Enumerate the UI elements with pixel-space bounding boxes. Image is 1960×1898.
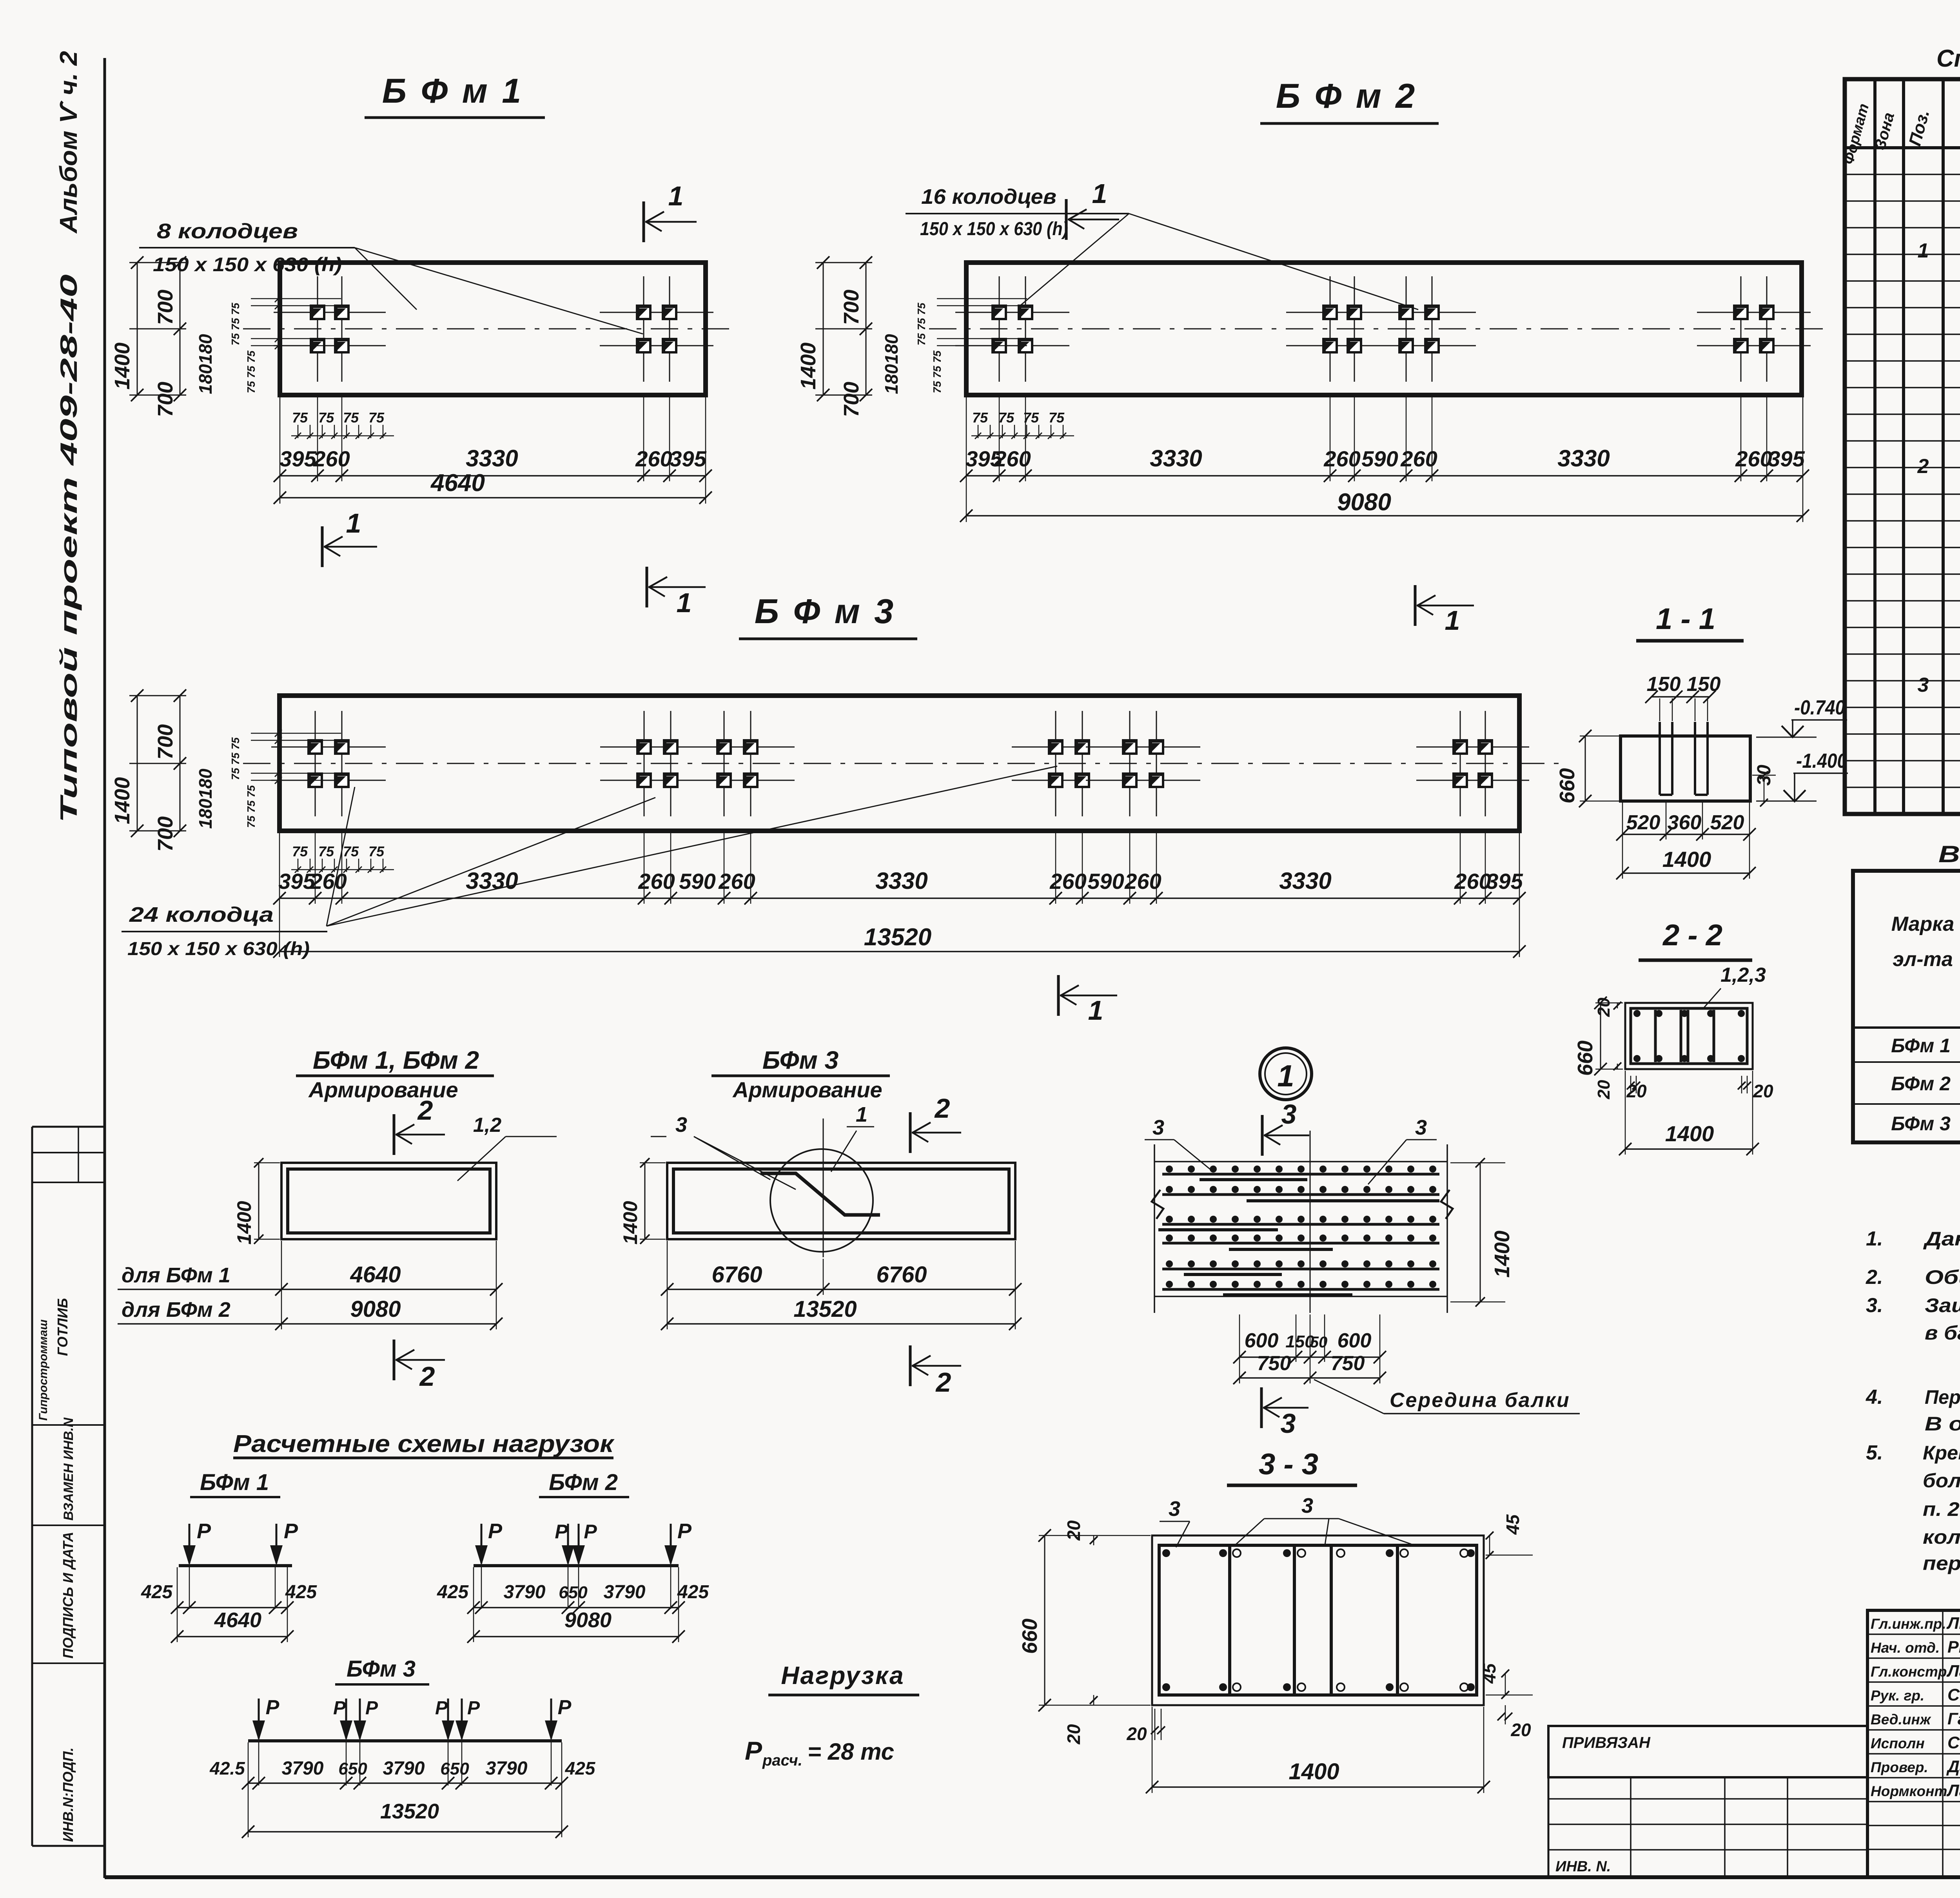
svg-text:600: 600 xyxy=(1338,1329,1372,1352)
svg-text:20: 20 xyxy=(1510,1720,1531,1740)
svg-text:Симакова: Симакова xyxy=(1947,1733,1960,1752)
break marks (detail 1) xyxy=(1152,1190,1163,1219)
svg-text:75 75 75: 75 75 75 xyxy=(229,303,241,345)
leader lines to wells БФм3 xyxy=(327,787,355,926)
svg-text:425: 425 xyxy=(437,1582,469,1603)
svg-text:Перед установкой пространстве: Перед установкой пространственных каркас… xyxy=(1925,1386,1960,1408)
svg-text:2 - 2: 2 - 2 xyxy=(1662,919,1722,952)
армирование БФм1-2 inner cage xyxy=(288,1169,490,1233)
bolt cluster БФм1 left xyxy=(317,276,318,382)
steel table grid xyxy=(1853,871,1960,1142)
svg-text:для БФм 2: для БФм 2 xyxy=(122,1298,230,1322)
svg-text:20: 20 xyxy=(1753,1081,1773,1101)
svg-text:1: 1 xyxy=(677,587,692,618)
svg-text:520: 520 xyxy=(1710,811,1744,834)
svg-text:395: 395 xyxy=(1768,446,1805,471)
svg-text:9080: 9080 xyxy=(1337,489,1391,516)
section 3-3 rebar dots xyxy=(1162,1549,1170,1557)
svg-text:P: P xyxy=(584,1521,597,1543)
svg-text:520: 520 xyxy=(1626,811,1661,834)
svg-text:Вед.инж: Вед.инж xyxy=(1871,1711,1931,1728)
svg-text:БФм 1, БФм 2: БФм 1, БФм 2 xyxy=(313,1046,479,1074)
dim stack left of БФм1 xyxy=(129,262,186,263)
svg-text:Гл.инж.пр.: Гл.инж.пр. xyxy=(1871,1616,1946,1632)
svg-text:Давыдова: Давыдова xyxy=(1946,1757,1960,1776)
svg-text:1400: 1400 xyxy=(1289,1759,1339,1784)
svg-text:4640: 4640 xyxy=(350,1262,401,1287)
scheme БФм1 dims xyxy=(177,1567,178,1609)
svg-text:1400: 1400 xyxy=(1665,1121,1714,1146)
svg-text:8 колодцев: 8 колодцев xyxy=(157,219,298,243)
svg-text:3330: 3330 xyxy=(466,868,518,894)
svg-text:20: 20 xyxy=(1063,1520,1084,1541)
svg-text:Гальперина: Гальперина xyxy=(1947,1709,1960,1728)
detail 1 centerline xyxy=(1310,1131,1311,1313)
svg-text:1400: 1400 xyxy=(1490,1231,1514,1278)
beam БФм2 outline xyxy=(966,263,1802,395)
svg-text:БФм 1: БФм 1 xyxy=(1891,1035,1951,1057)
extension lines БФм1 to dim row xyxy=(279,397,281,481)
svg-text:1: 1 xyxy=(1918,239,1929,262)
svg-text:9080: 9080 xyxy=(564,1608,612,1632)
svg-text:5.: 5. xyxy=(1866,1441,1883,1464)
svg-text:Типовой проект 409-28-40: Типовой проект 409-28-40 xyxy=(56,274,82,823)
beam БФм1 outline xyxy=(280,263,706,395)
svg-text:150 х 150 х 630 (h): 150 х 150 х 630 (h) xyxy=(920,219,1068,239)
svg-text:Выборка стали на один: Выборка стали на один элемент, кг xyxy=(1938,841,1960,867)
svg-text:45: 45 xyxy=(1503,1514,1523,1535)
svg-text:3: 3 xyxy=(1169,1497,1180,1521)
svg-text:2: 2 xyxy=(417,1095,433,1126)
section mark 2 (top, армир. БФм1-2) xyxy=(393,1114,396,1155)
section mark 1 (bottom, БФм2) xyxy=(1414,585,1417,626)
svg-text:для БФм 1: для БФм 1 xyxy=(122,1264,230,1287)
svg-text:Данный лист см. совместн: Данный лист см. совместно с л. КЖ8-3 xyxy=(1923,1228,1960,1250)
beam БФм3 centerline xyxy=(243,763,1568,764)
section 2-2 stirrup cage xyxy=(1631,1008,1747,1064)
section mark 3 (bottom, detail 1) xyxy=(1260,1387,1263,1428)
svg-text:600: 600 xyxy=(1245,1329,1279,1352)
svg-text:-1.400: -1.400 xyxy=(1796,750,1847,772)
svg-text:590: 590 xyxy=(679,869,715,894)
svg-text:Армирование: Армирование xyxy=(308,1077,458,1102)
svg-text:Б Ф м 1: Б Ф м 1 xyxy=(382,71,523,110)
svg-text:1400: 1400 xyxy=(111,777,134,824)
svg-text:= 28 тс: = 28 тс xyxy=(808,1738,894,1765)
scheme БФм3 loads xyxy=(258,1699,260,1738)
svg-text:75: 75 xyxy=(318,410,334,426)
svg-text:75: 75 xyxy=(998,410,1014,426)
svg-text:2: 2 xyxy=(935,1367,951,1398)
extension lines БФм3 to dim row xyxy=(279,832,280,904)
bolt cluster БФм1 right xyxy=(643,276,644,382)
svg-text:БФм 2: БФм 2 xyxy=(549,1470,618,1495)
annex lower grid xyxy=(1548,1777,1550,1877)
section 2-2 outline xyxy=(1625,1003,1753,1069)
svg-text:Армирование: Армирование xyxy=(732,1077,882,1102)
svg-text:1: 1 xyxy=(856,1103,867,1126)
svg-text:3: 3 xyxy=(1281,1099,1297,1129)
svg-text:Любавин: Любавин xyxy=(1946,1614,1960,1633)
svg-text:3330: 3330 xyxy=(466,445,518,471)
svg-text:ВЗАМЕН ИНВ.N: ВЗАМЕН ИНВ.N xyxy=(61,1417,76,1521)
svg-text:6760: 6760 xyxy=(876,1262,927,1287)
svg-text:1: 1 xyxy=(346,508,361,538)
svg-text:P: P xyxy=(467,1698,480,1719)
svg-text:75 75 75: 75 75 75 xyxy=(931,350,943,393)
svg-text:P: P xyxy=(488,1519,503,1543)
svg-text:1: 1 xyxy=(1445,605,1460,636)
svg-text:3790: 3790 xyxy=(504,1582,546,1603)
армирование БФм3 splice circle xyxy=(770,1149,873,1252)
svg-text:расч.: расч. xyxy=(762,1752,802,1769)
section mark 3 (top, detail 1) xyxy=(1261,1115,1264,1156)
section mark 2 (bottom, армир. БФм3) xyxy=(909,1345,912,1386)
svg-text:Марка: Марка xyxy=(1891,913,1955,935)
svg-text:750: 750 xyxy=(1257,1352,1291,1375)
svg-text:75 75 75: 75 75 75 xyxy=(245,785,257,828)
svg-text:1: 1 xyxy=(668,181,684,211)
svg-text:Б Ф м 3: Б Ф м 3 xyxy=(755,592,896,631)
svg-text:Середина балки: Середина балки xyxy=(1390,1389,1570,1412)
section 3-3 stirrup cage xyxy=(1159,1545,1477,1695)
svg-text:P: P xyxy=(284,1519,298,1543)
svg-text:эл-та: эл-та xyxy=(1893,948,1953,971)
section 3-3 vertical bars xyxy=(1228,1547,1231,1693)
svg-text:3790: 3790 xyxy=(383,1758,425,1779)
scheme БФм1 beam xyxy=(179,1564,292,1567)
section mark 2 (bottom, армир. БФм1-2) xyxy=(393,1340,396,1380)
svg-text:360: 360 xyxy=(1668,811,1702,834)
армирование БФм3 dim 1400 xyxy=(644,1163,646,1239)
svg-text:150: 150 xyxy=(1647,673,1681,696)
dim stack left of БФм3 xyxy=(129,695,186,696)
армирование БФм3 inner cage xyxy=(673,1169,1009,1233)
svg-text:колодцы, показанные на данно: колодцы, показанные на данном чертеже. Р… xyxy=(1923,1526,1960,1548)
svg-text:3330: 3330 xyxy=(1557,445,1610,471)
svg-text:13520: 13520 xyxy=(380,1800,439,1823)
svg-text:180180: 180180 xyxy=(881,334,902,394)
svg-text:590: 590 xyxy=(1361,446,1398,471)
svg-text:п. 2.4. Допускается крепление: п. 2.4. Допускается крепление оборудован… xyxy=(1923,1498,1960,1520)
svg-text:425: 425 xyxy=(141,1582,173,1603)
svg-text:P: P xyxy=(333,1698,346,1719)
svg-text:700: 700 xyxy=(154,724,177,760)
svg-text:болтами, соединенными с бето: болтами, соединенными с бетоном на эпокс… xyxy=(1923,1470,1960,1492)
svg-text:3 - 3: 3 - 3 xyxy=(1259,1448,1318,1481)
svg-text:3: 3 xyxy=(1918,674,1929,696)
svg-text:1400: 1400 xyxy=(1662,847,1711,872)
svg-text:700: 700 xyxy=(154,816,177,852)
svg-text:перед бетонированием сверить: перед бетонированием сверить по оборудов… xyxy=(1923,1552,1960,1574)
svg-text:6760: 6760 xyxy=(711,1262,762,1287)
армирование dim 1400 rotated xyxy=(258,1163,260,1239)
svg-text:50: 50 xyxy=(1310,1334,1328,1351)
армирование БФм3 outer rect xyxy=(667,1163,1015,1239)
svg-text:650: 650 xyxy=(338,1759,367,1778)
detail 1 circle xyxy=(1260,1048,1312,1100)
svg-text:260: 260 xyxy=(1124,869,1161,894)
svg-text:Лапкин: Лапкин xyxy=(1946,1781,1960,1800)
specification table grid xyxy=(1845,79,1960,814)
svg-text:180180: 180180 xyxy=(195,769,216,829)
title block outer & staff grid xyxy=(1867,1610,1960,1877)
svg-text:3: 3 xyxy=(1152,1116,1164,1139)
армирование БФм3 centerline xyxy=(823,1118,824,1257)
section mark 1 (top, БФм2) xyxy=(1065,199,1068,240)
svg-text:Спецификация элементов мон: Спецификация элементов монолитной констр… xyxy=(1936,45,1960,72)
section 1-1 outline xyxy=(1621,736,1750,801)
beam БФм3 outline xyxy=(279,696,1519,831)
svg-text:2: 2 xyxy=(419,1361,435,1392)
svg-text:700: 700 xyxy=(840,290,863,325)
svg-text:75: 75 xyxy=(343,410,359,426)
svg-text:3330: 3330 xyxy=(1150,445,1202,471)
svg-text:75 75 75: 75 75 75 xyxy=(245,350,257,393)
svg-text:1.: 1. xyxy=(1866,1227,1883,1250)
bolt clusters БФм2 xyxy=(999,276,1000,382)
svg-text:Общие указания см. лист: Общие указания см. лист КЖ8-1 xyxy=(1925,1266,1960,1288)
svg-text:75: 75 xyxy=(343,843,359,859)
section 1-1 anchor slots xyxy=(1659,722,1661,795)
svg-text:42.5: 42.5 xyxy=(209,1758,245,1778)
svg-text:Расчетные схемы нагрузок: Расчетные схемы нагрузок xyxy=(233,1430,615,1457)
svg-text:2: 2 xyxy=(1917,455,1929,478)
svg-text:БФм 3: БФм 3 xyxy=(1891,1113,1951,1135)
svg-text:3.: 3. xyxy=(1866,1294,1883,1317)
svg-text:700: 700 xyxy=(840,382,863,417)
margin stamp column box xyxy=(32,1126,105,1128)
svg-text:425: 425 xyxy=(677,1582,709,1603)
svg-text:P: P xyxy=(365,1698,378,1719)
svg-text:1,2,3: 1,2,3 xyxy=(1720,964,1766,986)
svg-text:Альбом Ѵ ч. 2: Альбом Ѵ ч. 2 xyxy=(55,51,82,234)
svg-text:-0.740: -0.740 xyxy=(1794,696,1845,719)
svg-text:P: P xyxy=(558,1696,572,1719)
svg-text:425: 425 xyxy=(565,1758,596,1778)
svg-text:1: 1 xyxy=(1277,1059,1294,1093)
svg-text:395: 395 xyxy=(279,446,316,471)
svg-text:Нач. отд.: Нач. отд. xyxy=(1871,1640,1940,1656)
svg-text:1 - 1: 1 - 1 xyxy=(1656,602,1715,636)
svg-text:БФм 3: БФм 3 xyxy=(347,1656,416,1682)
detail 1 plan edges xyxy=(1154,1144,1155,1313)
svg-text:700: 700 xyxy=(154,382,177,417)
svg-text:P: P xyxy=(197,1519,211,1543)
svg-text:Рук. гр.: Рук. гр. xyxy=(1871,1688,1924,1704)
svg-text:4.: 4. xyxy=(1866,1386,1883,1409)
svg-text:20: 20 xyxy=(1063,1724,1084,1745)
svg-text:20: 20 xyxy=(1594,1080,1613,1099)
svg-text:3: 3 xyxy=(1281,1408,1296,1439)
svg-text:Лапкин: Лапкин xyxy=(1946,1662,1960,1680)
leader lines to wells БФм1 xyxy=(355,248,417,310)
svg-text:Нагрузка: Нагрузка xyxy=(781,1661,904,1690)
section mark 2 (top, армир. БФм3) xyxy=(909,1112,912,1153)
армирование БФм1-2 outer rect xyxy=(281,1163,496,1239)
svg-text:75 75 75: 75 75 75 xyxy=(915,303,927,345)
svg-text:20: 20 xyxy=(1126,1724,1147,1744)
svg-text:1: 1 xyxy=(1088,995,1103,1026)
svg-text:260: 260 xyxy=(994,446,1031,471)
svg-text:75: 75 xyxy=(972,410,988,426)
svg-text:3790: 3790 xyxy=(604,1582,646,1603)
svg-text:1400: 1400 xyxy=(797,343,820,390)
svg-text:3330: 3330 xyxy=(1279,868,1331,894)
svg-text:75: 75 xyxy=(1049,410,1065,426)
svg-text:Провер.: Провер. xyxy=(1871,1759,1928,1775)
svg-text:1400: 1400 xyxy=(619,1201,641,1244)
svg-text:1400: 1400 xyxy=(233,1201,255,1244)
svg-text:3: 3 xyxy=(1301,1494,1313,1517)
svg-text:260: 260 xyxy=(1454,869,1491,894)
svg-text:660: 660 xyxy=(1573,1041,1597,1076)
svg-text:3: 3 xyxy=(1415,1116,1427,1139)
section 3-3 outline xyxy=(1152,1535,1484,1705)
leader lines to wells БФм2 xyxy=(1019,214,1129,306)
svg-text:P: P xyxy=(266,1696,279,1719)
svg-text:395: 395 xyxy=(670,446,706,471)
svg-text:75: 75 xyxy=(368,410,385,426)
svg-text:Крепление оборудования к фунда: Крепление оборудования к фундаментным ба… xyxy=(1923,1442,1960,1464)
bolt clusters БФм3 xyxy=(315,711,316,816)
svg-text:260: 260 xyxy=(1323,446,1360,471)
section mark 1 (top, БФм3) xyxy=(321,526,324,567)
svg-text:45: 45 xyxy=(1479,1663,1499,1684)
detail 1 dim 1400 (right) xyxy=(1480,1163,1481,1302)
svg-text:3790: 3790 xyxy=(282,1758,324,1779)
scheme БФм2 beam xyxy=(474,1564,679,1567)
svg-text:75: 75 xyxy=(292,410,308,426)
svg-text:P: P xyxy=(435,1698,448,1719)
svg-text:Гл.констр.: Гл.констр. xyxy=(1871,1664,1951,1680)
svg-text:750: 750 xyxy=(1331,1352,1365,1375)
svg-text:Синельникова: Синельникова xyxy=(1947,1686,1960,1704)
beam БФм1 centerline xyxy=(243,328,737,330)
svg-text:24 колодца: 24 колодца xyxy=(129,903,274,926)
svg-text:700: 700 xyxy=(154,290,177,325)
beam БФм2 centerline xyxy=(929,328,1827,330)
svg-text:75: 75 xyxy=(318,843,334,859)
svg-text:В опалубку балки БФм3 про: В опалубку балки БФм3 произвести их укру… xyxy=(1925,1413,1960,1435)
svg-text:4640: 4640 xyxy=(430,470,485,497)
scheme БФм2 dims xyxy=(473,1567,474,1609)
svg-text:260: 260 xyxy=(1400,446,1437,471)
svg-text:650: 650 xyxy=(440,1759,469,1778)
svg-text:в балках БФм1, БФм2 - 39 мм: в балках БФм1, БФм2 - 39 мм xyxy=(1925,1322,1960,1344)
svg-text:1: 1 xyxy=(1092,178,1107,209)
svg-text:260: 260 xyxy=(718,869,755,894)
svg-text:13520: 13520 xyxy=(864,924,931,951)
svg-text:260: 260 xyxy=(313,446,350,471)
svg-text:3790: 3790 xyxy=(486,1758,528,1779)
svg-text:P: P xyxy=(555,1521,568,1543)
svg-text:Исполн: Исполн xyxy=(1871,1735,1925,1751)
svg-text:260: 260 xyxy=(638,869,675,894)
svg-text:650: 650 xyxy=(559,1583,588,1602)
svg-text:150: 150 xyxy=(1687,673,1721,696)
svg-text:ПРИВЯЗАН: ПРИВЯЗАН xyxy=(1562,1734,1651,1751)
detail 1 bars with dots xyxy=(1162,1173,1439,1176)
svg-text:P: P xyxy=(677,1519,692,1543)
sheet frame bottom border xyxy=(105,1875,1960,1879)
svg-text:395: 395 xyxy=(1486,869,1523,894)
scheme БФм3 beam xyxy=(248,1739,562,1742)
scheme БФм2 loads xyxy=(481,1524,483,1563)
svg-text:2: 2 xyxy=(934,1093,950,1124)
svg-text:590: 590 xyxy=(1087,869,1124,894)
svg-text:3330: 3330 xyxy=(875,868,927,894)
section mark 1 (bottom, БФм3) xyxy=(1057,975,1060,1016)
svg-text:ГОТЛИБ: ГОТЛИБ xyxy=(54,1298,71,1356)
svg-text:75: 75 xyxy=(292,843,308,859)
section mark 1 (top, БФм1) xyxy=(642,201,645,242)
svg-text:БФм 2: БФм 2 xyxy=(1891,1073,1951,1095)
svg-text:260: 260 xyxy=(1049,869,1086,894)
svg-text:425: 425 xyxy=(285,1582,317,1603)
svg-text:Гипростроммаш: Гипростроммаш xyxy=(37,1319,50,1421)
svg-text:Рыбкина: Рыбкина xyxy=(1947,1638,1960,1657)
svg-text:БФм 1: БФм 1 xyxy=(200,1470,269,1495)
svg-text:9080: 9080 xyxy=(350,1296,401,1322)
svg-text:660: 660 xyxy=(1555,768,1579,803)
svg-text:3: 3 xyxy=(675,1113,687,1137)
dim stack left of БФм2 xyxy=(815,262,872,263)
extension lines БФм2 to dim row xyxy=(966,397,967,481)
svg-text:180180: 180180 xyxy=(195,334,216,394)
svg-text:2.: 2. xyxy=(1866,1266,1883,1289)
section 1-1 dim 660 (left) xyxy=(1585,736,1586,801)
sheet frame left border xyxy=(103,58,106,1878)
svg-text:260: 260 xyxy=(1735,446,1772,471)
scheme БФм3 dims xyxy=(248,1742,249,1786)
svg-text:75: 75 xyxy=(368,843,385,859)
svg-text:13520: 13520 xyxy=(793,1296,857,1322)
svg-text:ИНВ. N.: ИНВ. N. xyxy=(1555,1858,1611,1875)
svg-text:1400: 1400 xyxy=(111,343,134,390)
svg-text:660: 660 xyxy=(1018,1619,1042,1654)
svg-text:260: 260 xyxy=(310,869,347,894)
svg-text:БФм 3: БФм 3 xyxy=(762,1046,838,1074)
svg-text:1,2: 1,2 xyxy=(473,1114,501,1137)
svg-text:Б Ф м 2: Б Ф м 2 xyxy=(1276,76,1417,115)
scheme БФм1 loads xyxy=(189,1524,191,1563)
privyazan annex box xyxy=(1548,1726,1867,1777)
svg-text:75 75 75: 75 75 75 xyxy=(229,737,241,780)
detail 1 dims 600 150 50 600 xyxy=(1239,1314,1240,1362)
svg-text:260: 260 xyxy=(635,446,672,471)
армирование БФм3 splice bar xyxy=(760,1173,880,1215)
section mark 1 (bottom, БФм1) xyxy=(646,567,648,607)
svg-text:P: P xyxy=(745,1736,762,1765)
svg-text:16 колодцев: 16 колодцев xyxy=(921,185,1056,208)
svg-text:ИНВ.N:ПОДП.: ИНВ.N:ПОДП. xyxy=(60,1748,76,1842)
svg-text:Нормконт: Нормконт xyxy=(1871,1783,1947,1799)
svg-text:ПОДПИСЬ И ДАТА: ПОДПИСЬ И ДАТА xyxy=(60,1532,76,1659)
svg-text:4640: 4640 xyxy=(214,1608,261,1632)
svg-text:Защитный слой бетона до: Защитный слой бетона до рабочей арматуры… xyxy=(1925,1294,1960,1316)
section 2-2 rebar dots xyxy=(1633,1010,1641,1017)
